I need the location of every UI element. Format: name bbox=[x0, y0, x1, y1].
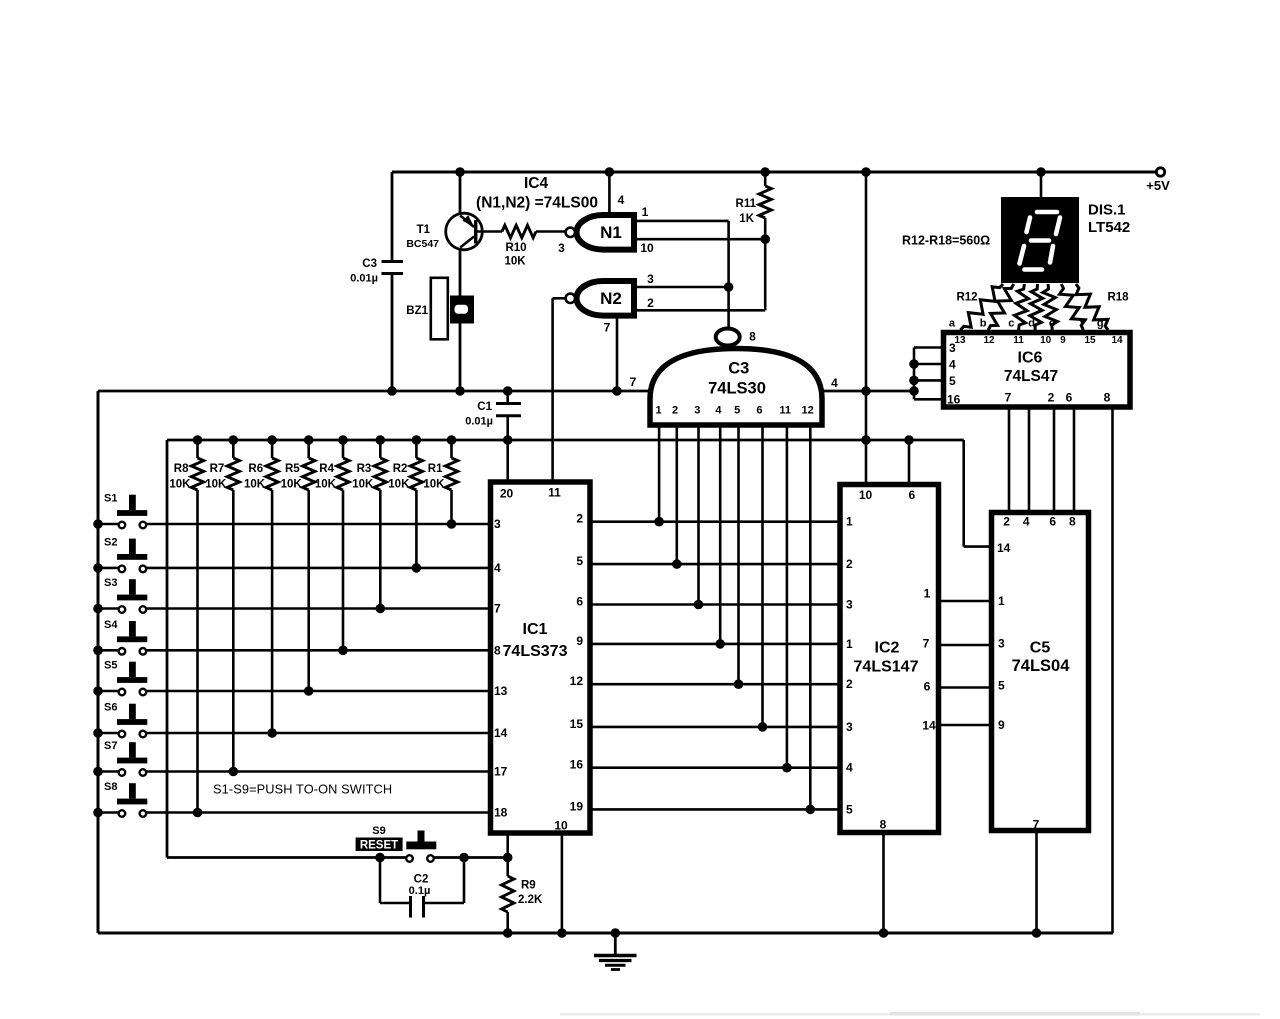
svg-text:2: 2 bbox=[576, 512, 583, 526]
svg-text:16: 16 bbox=[947, 393, 961, 407]
svg-text:7: 7 bbox=[1033, 818, 1040, 832]
labels IC6 left pins bbox=[947, 341, 961, 407]
resistor R1 10K bbox=[423, 440, 457, 529]
junction dot N2 pin3 / N1 pin1 vertical bbox=[724, 282, 734, 292]
svg-text:1: 1 bbox=[656, 405, 662, 417]
wire IC2 pin 8 to ground rail bbox=[882, 833, 885, 933]
svg-text:10K: 10K bbox=[388, 479, 410, 491]
resistor R11 1K bbox=[736, 172, 772, 239]
svg-text:74LS147: 74LS147 bbox=[854, 659, 919, 676]
svg-text:1: 1 bbox=[846, 515, 853, 529]
svg-text:0.01µ: 0.01µ bbox=[350, 273, 378, 285]
svg-text:a: a bbox=[949, 318, 956, 330]
junction dots on reset wire bbox=[375, 853, 512, 863]
capacitor C2 0.1u bbox=[380, 858, 464, 918]
wire N2 pin 3 bbox=[636, 286, 729, 289]
IC U1 74LS373 (IC1) body bbox=[491, 482, 591, 833]
resistor R5 10K bbox=[281, 440, 315, 696]
junction dots on IC6 left bus bbox=[909, 359, 919, 385]
wire vertical N1 pin1 to C3 bubble bbox=[727, 221, 730, 327]
svg-text:1K: 1K bbox=[739, 213, 754, 225]
svg-text:5: 5 bbox=[734, 405, 740, 417]
svg-text:8: 8 bbox=[880, 818, 887, 832]
svg-text:R7: R7 bbox=[210, 463, 225, 475]
svg-text:3: 3 bbox=[694, 405, 700, 417]
svg-text:13: 13 bbox=[954, 335, 966, 346]
svg-text:8: 8 bbox=[1069, 515, 1076, 529]
junction dots on ground rail bbox=[503, 928, 1041, 938]
wire node line right segment (C3 pin 4 to IC6 bus) bbox=[823, 390, 914, 393]
op-amp gate N2 (NAND, facing left) bbox=[566, 281, 634, 316]
svg-text:10K: 10K bbox=[423, 479, 445, 491]
svg-text:C3: C3 bbox=[362, 258, 377, 270]
wires IC2 outputs to C5 inputs bbox=[939, 601, 991, 725]
svg-text:3: 3 bbox=[998, 637, 1005, 651]
svg-text:6: 6 bbox=[756, 405, 762, 417]
node +5V terminal bbox=[1146, 168, 1170, 193]
switch S6 (push-to-on) bbox=[98, 702, 488, 738]
svg-text:3: 3 bbox=[558, 241, 565, 255]
svg-text:11: 11 bbox=[779, 405, 791, 417]
svg-text:4: 4 bbox=[494, 561, 501, 575]
svg-text:3: 3 bbox=[846, 720, 853, 734]
svg-text:g: g bbox=[1097, 318, 1104, 330]
switch S2 (push-to-on) bbox=[98, 536, 488, 572]
svg-text:12: 12 bbox=[983, 335, 995, 346]
wire IC6 pin 8 down right side to ground rail bbox=[1111, 407, 1114, 933]
label IC4 (N1,N2)=74LS00 bbox=[476, 175, 598, 212]
transistor T1 BC547 bbox=[406, 213, 482, 250]
svg-text:10: 10 bbox=[859, 488, 873, 502]
svg-text:2: 2 bbox=[672, 405, 678, 417]
display DIS.1 LT542 (7-segment) bbox=[1001, 197, 1130, 283]
svg-text:R4: R4 bbox=[319, 463, 334, 475]
labels IC6 bottom pins bbox=[1005, 391, 1111, 405]
svg-text:N1: N1 bbox=[600, 223, 622, 242]
svg-text:R9: R9 bbox=[521, 880, 536, 892]
wire N1 pin 10 output bbox=[636, 238, 765, 241]
wires C3 input pins down to data rows with junction dots bbox=[654, 425, 815, 814]
wire left common rail bbox=[97, 391, 100, 933]
decorative scan streak bbox=[560, 1012, 1260, 1016]
svg-text:LT542: LT542 bbox=[1088, 219, 1130, 236]
svg-text:74LS373: 74LS373 bbox=[503, 643, 568, 660]
junction dot R11 / N1 pin10 bbox=[760, 234, 770, 244]
svg-text:10K: 10K bbox=[169, 479, 191, 491]
wires IC6 bottom pins to C5 top pins bbox=[1009, 407, 1074, 514]
svg-text:7: 7 bbox=[923, 637, 930, 651]
labels IC2 left pins bbox=[846, 515, 853, 817]
svg-text:5: 5 bbox=[576, 554, 583, 568]
wire IC1 pin 20 from rail bbox=[506, 440, 509, 482]
svg-text:BC547: BC547 bbox=[406, 238, 439, 250]
IC U5 74LS04 (C5) body bbox=[992, 513, 1089, 831]
junction dot node line end at IC6 bus bbox=[909, 386, 919, 396]
svg-text:R11: R11 bbox=[736, 198, 757, 210]
svg-text:1: 1 bbox=[998, 594, 1005, 608]
svg-text:S4: S4 bbox=[104, 619, 118, 631]
wire T1 base to R10 bbox=[476, 230, 502, 233]
svg-text:16: 16 bbox=[570, 758, 584, 772]
wire IC1 pin 10 down to ground rail bbox=[561, 833, 564, 933]
svg-text:R18: R18 bbox=[1107, 292, 1129, 304]
wire latch rail down left frame to reset switch bbox=[166, 440, 169, 858]
svg-text:10K: 10K bbox=[352, 479, 374, 491]
svg-text:13: 13 bbox=[494, 684, 508, 698]
svg-text:1: 1 bbox=[846, 637, 853, 651]
svg-text:4: 4 bbox=[1023, 515, 1030, 529]
svg-text:S9: S9 bbox=[372, 825, 385, 837]
switch S5 (push-to-on) bbox=[98, 660, 488, 696]
svg-text:6: 6 bbox=[576, 595, 583, 609]
svg-text:7: 7 bbox=[494, 602, 501, 616]
svg-text:IC6: IC6 bbox=[1018, 350, 1043, 367]
svg-text:R6: R6 bbox=[248, 463, 263, 475]
wire IC1 pin 1 down to reset line bbox=[506, 833, 509, 858]
svg-text:10K: 10K bbox=[504, 256, 526, 268]
svg-text:IC1: IC1 bbox=[523, 621, 548, 638]
resistor R2 10K bbox=[388, 440, 422, 573]
svg-text:R8: R8 bbox=[174, 463, 189, 475]
svg-text:7: 7 bbox=[1005, 391, 1012, 405]
svg-text:10K: 10K bbox=[205, 479, 227, 491]
svg-text:8: 8 bbox=[494, 643, 501, 657]
svg-text:4: 4 bbox=[715, 405, 722, 417]
wire rail corner down to C5 pin 14 bbox=[962, 440, 965, 547]
svg-text:IC4: IC4 bbox=[524, 175, 549, 192]
svg-text:S7: S7 bbox=[104, 740, 117, 752]
svg-text:DIS.1: DIS.1 bbox=[1088, 202, 1126, 219]
wire N2 pin 2 bbox=[636, 309, 765, 312]
labels IC1 top pins 20 and 11 bbox=[500, 486, 561, 501]
resistors R12-R18 fan bbox=[960, 284, 1108, 330]
svg-text:6: 6 bbox=[1066, 391, 1073, 405]
svg-text:19: 19 bbox=[570, 799, 584, 813]
svg-text:S1-S9=PUSH TO-ON SWITCH: S1-S9=PUSH TO-ON SWITCH bbox=[213, 782, 392, 797]
svg-text:5: 5 bbox=[846, 802, 853, 816]
svg-text:S1: S1 bbox=[104, 493, 117, 505]
IC U6 74LS47 (IC6) body bbox=[944, 333, 1131, 408]
svg-text:10K: 10K bbox=[315, 479, 337, 491]
wire reset switch to IC1 pin1 node bbox=[434, 856, 508, 859]
svg-text:6: 6 bbox=[908, 488, 915, 502]
wire IC2 pin 10 from +5V rail bbox=[865, 172, 868, 484]
capacitor C3 bbox=[350, 258, 403, 285]
svg-text:15: 15 bbox=[570, 717, 584, 731]
svg-text:(N1,N2) =74LS00: (N1,N2) =74LS00 bbox=[476, 195, 598, 212]
svg-text:9: 9 bbox=[576, 634, 583, 648]
wires IC6 left pins to bus bbox=[914, 348, 943, 400]
svg-text:74LS04: 74LS04 bbox=[1012, 657, 1071, 675]
wire ground bottom rail bbox=[98, 932, 1113, 935]
svg-text:10K: 10K bbox=[281, 479, 303, 491]
svg-text:C1: C1 bbox=[477, 401, 492, 413]
svg-text:10: 10 bbox=[640, 241, 654, 255]
svg-text:R5: R5 bbox=[285, 463, 300, 475]
svg-text:10: 10 bbox=[1040, 335, 1052, 346]
resistor R9 2.2K bbox=[502, 858, 543, 934]
svg-text:RESET: RESET bbox=[360, 840, 398, 852]
switch S1 (push-to-on) bbox=[98, 493, 488, 529]
labels C5 top pins bbox=[1003, 515, 1076, 529]
svg-text:11: 11 bbox=[1013, 335, 1024, 346]
svg-text:e: e bbox=[1049, 318, 1055, 330]
svg-text:f: f bbox=[1080, 318, 1084, 330]
labels IC2 top pins 10 and 16 bbox=[859, 488, 916, 502]
svg-text:17: 17 bbox=[494, 765, 508, 779]
svg-text:N2: N2 bbox=[600, 289, 622, 308]
svg-text:C2: C2 bbox=[414, 874, 429, 886]
svg-text:1: 1 bbox=[642, 205, 649, 219]
wire latch-enable rail bbox=[167, 439, 964, 442]
svg-text:9: 9 bbox=[998, 718, 1005, 732]
svg-text:4: 4 bbox=[618, 193, 625, 207]
svg-text:C5: C5 bbox=[1030, 640, 1051, 657]
svg-text:14: 14 bbox=[1111, 335, 1123, 346]
wire rail to display common bbox=[1040, 172, 1043, 198]
svg-text:10: 10 bbox=[554, 819, 568, 833]
svg-text:2: 2 bbox=[1003, 515, 1010, 529]
buzzer BZ1 bbox=[406, 278, 474, 340]
ground symbol bbox=[594, 933, 637, 970]
wire node line left segment (to C3 pin 7) bbox=[98, 390, 648, 393]
svg-text:2: 2 bbox=[1048, 391, 1055, 405]
svg-text:3: 3 bbox=[647, 272, 654, 286]
svg-text:3: 3 bbox=[494, 517, 501, 531]
svg-text:2: 2 bbox=[846, 557, 853, 571]
resistor R8 10K bbox=[169, 440, 203, 817]
labels IC2 right pins bbox=[922, 587, 936, 733]
wire from rail down to C3 capacitor bbox=[391, 172, 394, 262]
wires data rows IC1 to IC2 bbox=[590, 522, 839, 810]
wire N2 pin 7 down bbox=[616, 319, 619, 392]
junction dots on node line bbox=[387, 386, 622, 396]
svg-text:8: 8 bbox=[1104, 391, 1111, 405]
svg-text:12: 12 bbox=[570, 674, 584, 688]
svg-text:2: 2 bbox=[647, 296, 654, 310]
svg-text:5: 5 bbox=[998, 679, 1005, 693]
switch S3 (push-to-on) bbox=[98, 577, 488, 613]
svg-text:7: 7 bbox=[630, 375, 637, 389]
switch S7 (push-to-on) bbox=[98, 740, 488, 776]
wire N2 output bubble to IC1 pin 11 bbox=[553, 297, 565, 300]
svg-text:R2: R2 bbox=[393, 463, 408, 475]
svg-text:2: 2 bbox=[846, 677, 853, 691]
svg-text:14: 14 bbox=[922, 719, 936, 733]
svg-text:R10: R10 bbox=[505, 242, 526, 254]
wire C5 pin 7 to ground rail bbox=[1035, 830, 1038, 933]
junction dots left rail at switch rows bbox=[93, 519, 103, 817]
capacitor C1 0.01u bbox=[465, 391, 521, 440]
wire IC2 pin 16 from latch rail bbox=[908, 440, 911, 484]
svg-text:4: 4 bbox=[846, 761, 853, 775]
wire rail to T1 collector bbox=[459, 172, 462, 214]
junction dot node line / IC2 pin10 vertical bbox=[861, 386, 871, 396]
svg-text:T1: T1 bbox=[417, 224, 431, 236]
op-amp gate N1 (NAND, facing left) bbox=[566, 215, 634, 250]
resistor R4 10K bbox=[315, 440, 349, 655]
svg-text:15: 15 bbox=[1084, 335, 1096, 346]
wire R10 to N1 input bubble bbox=[536, 230, 565, 233]
switch S9 RESET bbox=[356, 825, 437, 862]
svg-text:9: 9 bbox=[1060, 335, 1066, 346]
svg-text:d: d bbox=[1028, 318, 1035, 330]
svg-text:IC2: IC2 bbox=[875, 640, 900, 657]
svg-text:R12: R12 bbox=[956, 292, 977, 304]
svg-text:4: 4 bbox=[949, 358, 956, 372]
labels display segments a-g bbox=[949, 318, 1104, 330]
svg-text:20: 20 bbox=[500, 487, 514, 501]
svg-text:c: c bbox=[1008, 318, 1014, 330]
svg-text:12: 12 bbox=[801, 405, 813, 417]
wire N1 pin 4 from rail bbox=[608, 172, 611, 212]
svg-text:S6: S6 bbox=[104, 702, 117, 714]
wire N1 pin 1 output bbox=[636, 220, 729, 223]
svg-text:R12-R18=560Ω: R12-R18=560Ω bbox=[902, 234, 990, 248]
svg-text:R3: R3 bbox=[357, 463, 372, 475]
wire T1 emitter down bbox=[459, 249, 462, 296]
svg-text:S3: S3 bbox=[104, 577, 117, 589]
labels R12 and R18 bbox=[956, 292, 1129, 304]
svg-text:14: 14 bbox=[494, 726, 508, 740]
resistor R3 10K bbox=[352, 440, 386, 613]
svg-text:74LS47: 74LS47 bbox=[1004, 368, 1058, 385]
svg-text:S2: S2 bbox=[104, 536, 117, 548]
svg-text:0.01µ: 0.01µ bbox=[465, 416, 493, 428]
svg-text:6: 6 bbox=[1049, 515, 1056, 529]
svg-text:BZ1: BZ1 bbox=[406, 305, 428, 317]
wire vertical from R11 node down to N2 pin 2 bbox=[764, 239, 767, 310]
junction dots on latch rail bbox=[193, 435, 914, 445]
svg-text:4: 4 bbox=[831, 376, 838, 390]
svg-text:0.1µ: 0.1µ bbox=[409, 885, 431, 897]
labels IC1 right pins bbox=[570, 512, 584, 814]
svg-text:11: 11 bbox=[548, 486, 561, 500]
svg-text:18: 18 bbox=[494, 806, 508, 820]
labels IC1 left pins bbox=[494, 517, 508, 820]
switch S8 (push-to-on) bbox=[98, 781, 488, 817]
svg-text:8: 8 bbox=[749, 330, 756, 344]
svg-text:R1: R1 bbox=[428, 463, 443, 475]
resistor R6 10K bbox=[244, 440, 278, 738]
svg-text:10K: 10K bbox=[244, 479, 266, 491]
svg-text:C3: C3 bbox=[728, 360, 749, 378]
svg-text:2.2K: 2.2K bbox=[518, 894, 543, 906]
svg-text:7: 7 bbox=[604, 321, 611, 335]
svg-text:3: 3 bbox=[846, 598, 853, 612]
resistor R7 10K bbox=[205, 440, 239, 776]
svg-text:74LS30: 74LS30 bbox=[708, 380, 766, 398]
svg-text:S8: S8 bbox=[104, 781, 117, 793]
op-amp gate C3 74LS30 (8-input NAND dome) bbox=[650, 329, 822, 426]
wire BZ1 down to node line bbox=[459, 324, 462, 392]
labels input pins of C3 bbox=[656, 405, 814, 417]
svg-text:S5: S5 bbox=[104, 660, 117, 672]
resistor R10 10K bbox=[502, 225, 536, 267]
svg-text:5: 5 bbox=[949, 374, 956, 388]
wire +5V top supply rail bbox=[392, 171, 1157, 174]
wire C3 to node line bbox=[391, 274, 394, 391]
labels C5 left pins bbox=[997, 541, 1011, 732]
svg-text:6: 6 bbox=[924, 680, 931, 694]
svg-text:b: b bbox=[980, 318, 987, 330]
svg-text:1: 1 bbox=[924, 587, 931, 601]
IC U2 74LS147 (IC2) body bbox=[840, 485, 939, 833]
svg-text:14: 14 bbox=[997, 541, 1011, 555]
svg-text:3: 3 bbox=[949, 341, 956, 355]
junction dots on +5V rail bbox=[455, 167, 1046, 177]
switch S4 (push-to-on) bbox=[98, 619, 488, 655]
labels IC6 top pins bbox=[954, 335, 1123, 346]
svg-text:+5V: +5V bbox=[1146, 178, 1170, 193]
